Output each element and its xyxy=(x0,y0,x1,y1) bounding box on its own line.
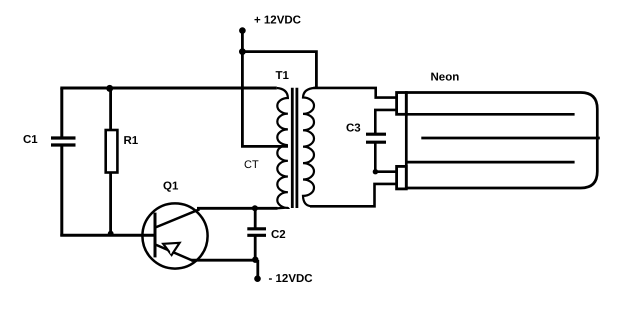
svg-text:CT: CT xyxy=(244,159,259,171)
svg-text:T1: T1 xyxy=(276,70,290,82)
transistor Q1 xyxy=(142,203,207,268)
wire secondary bottom to bottom cap pin 2 xyxy=(310,184,397,206)
neon tube end cap bottom xyxy=(397,166,407,189)
svg-text:- 12VDC: - 12VDC xyxy=(269,273,313,285)
svg-text:Q1: Q1 xyxy=(163,180,179,192)
neon tube end cap top xyxy=(397,93,407,115)
neon tube inner line 1 xyxy=(406,113,574,116)
transformer T1 secondary winding xyxy=(303,88,315,206)
wire secondary top to tube pin 1 xyxy=(314,88,397,98)
capacitor C2 xyxy=(247,208,266,260)
terminal +12VDC dot xyxy=(239,27,246,34)
terminal -12VDC dot xyxy=(254,275,261,282)
wire to -12VDC xyxy=(256,260,259,279)
transformer T1 primary winding xyxy=(277,88,288,208)
wire collector to primary bottom xyxy=(197,207,278,210)
node junction C3 / bottom cap pin xyxy=(373,169,378,174)
wire C3 to bottom cap pin 1 xyxy=(375,170,397,173)
wire +12V branch to right xyxy=(242,52,316,89)
capacitor C3 xyxy=(366,134,386,172)
node junction collector / C2 xyxy=(252,205,258,211)
node junction bottom rail / R1 xyxy=(108,231,114,237)
svg-text:+ 12VDC: + 12VDC xyxy=(254,15,301,27)
neon tube body xyxy=(406,93,597,189)
node junction top rail / R1 xyxy=(106,85,113,92)
wire emitter horizontal xyxy=(191,259,256,262)
wire bottom rail (base wire) xyxy=(60,234,155,237)
svg-text:C1: C1 xyxy=(23,134,38,146)
resistor R1 xyxy=(106,88,118,236)
wire top rail left xyxy=(60,87,276,90)
svg-text:Neon: Neon xyxy=(431,72,460,84)
wire tube pin 2 to C3 xyxy=(375,110,397,133)
svg-text:R1: R1 xyxy=(124,135,139,147)
node junction emitter / C2 xyxy=(252,257,258,263)
wire +12V vertical down to CT xyxy=(241,31,244,148)
capacitor C1 xyxy=(51,88,76,236)
neon tube inner line 3 xyxy=(406,161,574,164)
svg-text:C3: C3 xyxy=(346,123,361,135)
wire CT horizontal xyxy=(241,145,288,148)
node junction at +12V branch xyxy=(239,48,246,55)
transformer core xyxy=(291,88,294,208)
neon tube inner line 2 xyxy=(421,137,600,140)
svg-text:C2: C2 xyxy=(271,229,286,241)
